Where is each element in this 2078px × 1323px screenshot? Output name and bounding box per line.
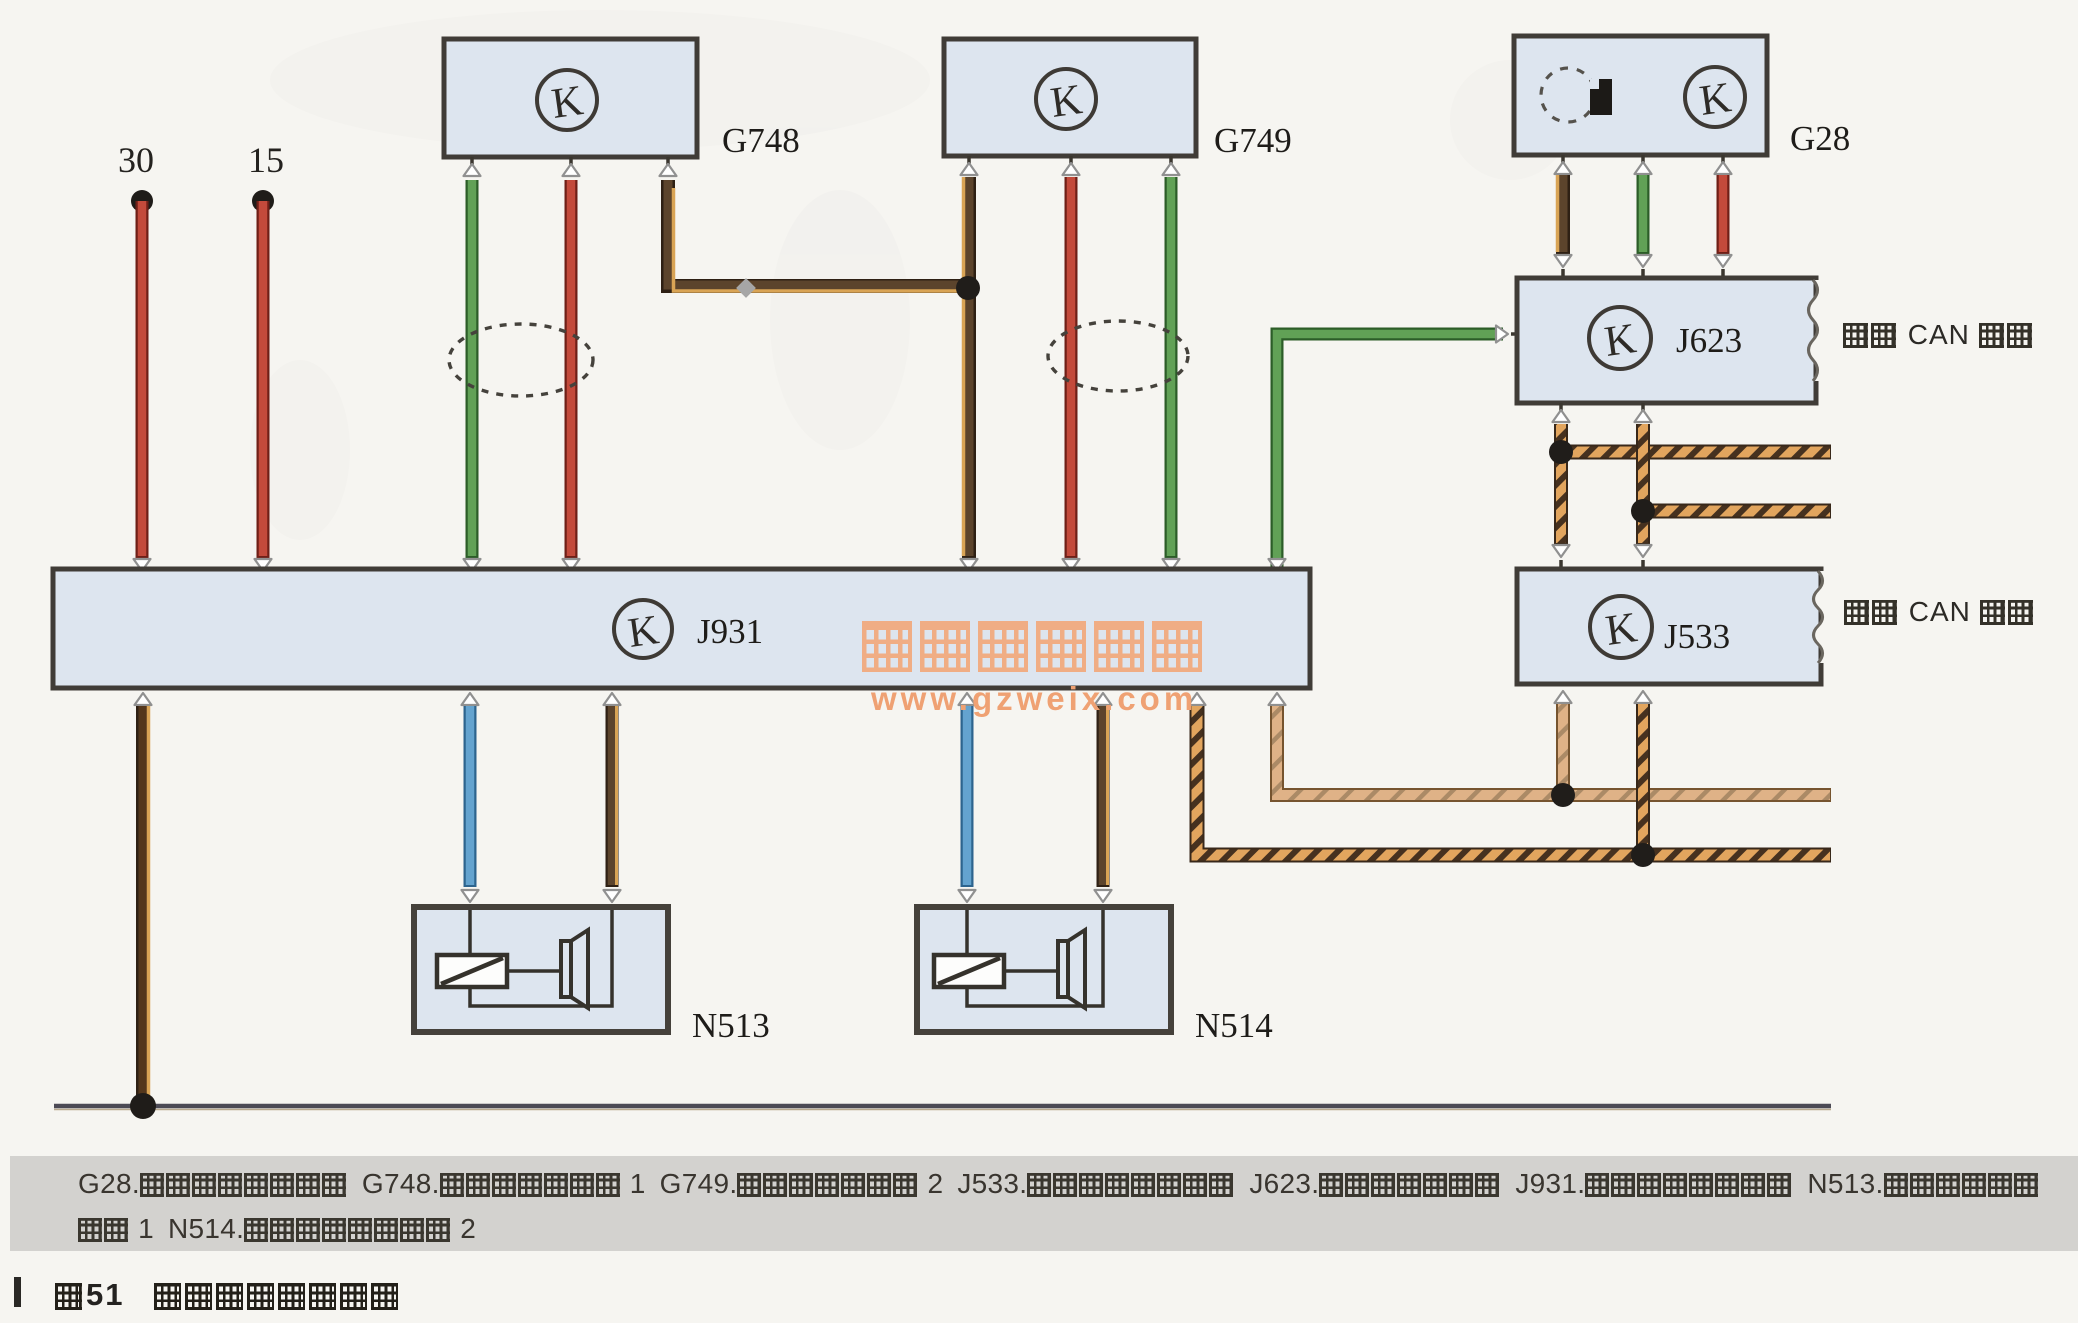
net label: extended CAN bus (Chinese) — [1844, 596, 2036, 628]
wire: red supply from terminal 30 to J931 — [134, 201, 151, 571]
svg-text:K: K — [1603, 604, 1640, 655]
wire: light-striped extended-CAN from J931, elbow to the right — [1269, 693, 1832, 795]
svg-text:N514: N514 — [1195, 1006, 1273, 1045]
junction: ground wire to ground rail — [130, 1093, 156, 1119]
junction: striped bus — [1631, 843, 1655, 867]
wire: red supply from terminal 15 to J931 — [255, 201, 272, 571]
svg-text:15: 15 — [248, 140, 284, 180]
wire: CAN-L striped J623 to J533 — [1635, 403, 1652, 569]
wire: blue J931 to N514 — [959, 693, 976, 902]
wire: brown G28 pin1 to J623 — [1555, 155, 1572, 278]
wire: brown ground wire from J931 to ground rail — [135, 693, 152, 1103]
sensor G748 (engine mount sensor 1) — [444, 39, 800, 160]
actuator N513 (engine mount actuator 1) — [414, 907, 668, 1032]
node 15 (ignition terminal) — [248, 140, 284, 212]
svg-text:N513: N513 — [692, 1006, 770, 1045]
junction: brown wires above G749 pin1 — [956, 276, 980, 300]
wire: brown J931 to N514 — [1095, 693, 1112, 902]
wire: brown G749 pin1 to J931 (through junction) — [961, 156, 978, 571]
wire: red signal G749 pin2 to J931 — [1063, 156, 1080, 571]
svg-text:30: 30 — [118, 140, 154, 180]
svg-text:K: K — [1048, 76, 1085, 127]
wire: CAN-H striped J623 to J533 — [1553, 403, 1570, 569]
label N513 — [692, 1006, 770, 1045]
wire: brown J931 to N513 — [604, 693, 621, 902]
inline connector marker on brown wire — [736, 278, 756, 298]
legend band — [10, 1156, 2078, 1251]
wire: CAN-L striped branch to the right — [1643, 504, 1831, 519]
wire: green drive-CAN from J931 to J623 — [1269, 326, 1519, 572]
svg-text:K: K — [1697, 74, 1734, 125]
ground rail — [54, 1106, 1831, 1110]
wire: red signal G748 pin2 to J931 — [563, 157, 580, 571]
wire: brown G748 pin3, elbow to junction above G749 pin1 — [660, 157, 965, 291]
node 30 (battery positive terminal) — [118, 140, 154, 212]
wire: CAN-H striped branch to the right — [1561, 445, 1831, 460]
control unit J931 (engine mount control unit) — [53, 569, 1310, 688]
N514 solenoid coil — [934, 955, 1004, 987]
legend line 2 — [78, 1213, 476, 1245]
svg-text:J931: J931 — [697, 612, 763, 651]
svg-text:J623: J623 — [1676, 321, 1742, 360]
N514 transducer — [1058, 930, 1085, 1008]
N514 internal wiring — [967, 910, 1103, 1006]
wire: red G28 pin3 to J623 — [1715, 155, 1732, 278]
wire: green G28 pin2 to J623 — [1635, 155, 1652, 278]
watermark line 2 (url) — [871, 680, 1197, 718]
wire: green signal G748 pin1 to J931 — [464, 157, 481, 571]
svg-text:G749: G749 — [1214, 121, 1292, 160]
label N514 — [1195, 1006, 1273, 1045]
twisted-pair marker (dashed ellipse) for G748 wires — [449, 324, 593, 396]
figure caption 图51 — [55, 1277, 402, 1313]
junction: CAN-L branch — [1631, 499, 1655, 523]
twisted-pair marker (dashed ellipse) for G749 wires — [1048, 321, 1188, 391]
wire: light-striped J533 to extended-CAN bus — [1555, 691, 1572, 791]
net label: drive CAN bus (Chinese) — [1843, 319, 2035, 351]
gateway J533 (data bus diagnostic interface) — [1517, 569, 1824, 684]
N513 transducer — [561, 930, 588, 1008]
svg-text:K: K — [1602, 315, 1639, 366]
junction: light-striped bus — [1551, 783, 1575, 807]
junction: CAN-H branch — [1549, 440, 1573, 464]
figure caption bar — [14, 1277, 21, 1307]
N513 solenoid coil — [437, 955, 507, 987]
svg-text:G28: G28 — [1790, 119, 1850, 158]
ECU J623 (engine control unit) — [1517, 278, 1819, 403]
wire: blue J931 to N513 — [462, 693, 479, 902]
svg-text:G748: G748 — [722, 121, 800, 160]
actuator N514 (engine mount actuator 2) — [917, 907, 1171, 1032]
sensor G28 (engine speed sensor) — [1514, 36, 1850, 158]
N513 internal wiring — [470, 910, 612, 1006]
watermark line 1 (Chinese) — [862, 621, 1210, 673]
wire: striped J533 to extended-CAN bus — [1635, 691, 1652, 851]
sensor G749 (engine mount sensor 2) — [944, 39, 1292, 160]
svg-text:K: K — [549, 77, 586, 128]
legend line 1 — [78, 1168, 2040, 1200]
wire: striped extended-CAN from J931, elbow to the right — [1189, 693, 1832, 855]
svg-text:K: K — [625, 607, 661, 657]
svg-text:J533: J533 — [1664, 617, 1730, 656]
wire: green signal G749 pin3 to J931 — [1163, 156, 1180, 571]
